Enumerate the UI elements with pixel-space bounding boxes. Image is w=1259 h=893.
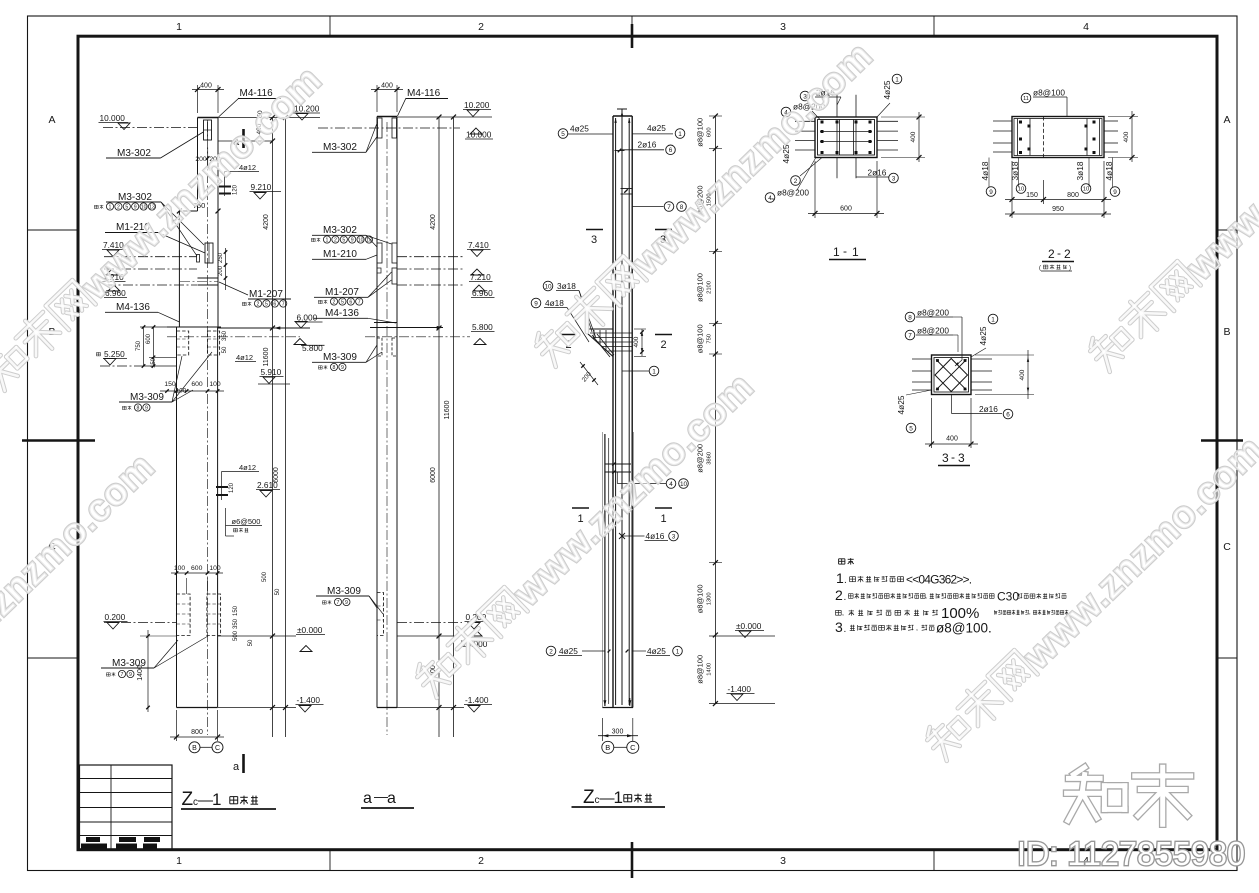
svg-text:10.000: 10.000 [466, 130, 492, 140]
svg-text:2ø16: 2ø16 [638, 140, 657, 150]
svg-text:4ø25: 4ø25 [570, 124, 589, 134]
svg-text:950: 950 [1052, 206, 1064, 213]
svg-text:3: 3 [780, 21, 786, 33]
svg-text:ø8@100: ø8@100 [1033, 88, 1065, 98]
svg-text:11600: 11600 [263, 347, 270, 366]
svg-text:ø8@200: ø8@200 [777, 188, 809, 198]
svg-text:0.200: 0.200 [105, 612, 126, 622]
svg-text:10: 10 [358, 237, 364, 243]
svg-text:9: 9 [345, 600, 348, 606]
svg-text:10: 10 [1018, 187, 1024, 193]
svg-text:6: 6 [273, 301, 276, 307]
svg-text:5: 5 [341, 299, 344, 305]
svg-text:1: 1 [176, 855, 182, 867]
svg-text:50: 50 [222, 346, 228, 353]
svg-text:9: 9 [1113, 189, 1117, 196]
svg-text:150: 150 [164, 381, 176, 388]
svg-text:B: B [1223, 326, 1230, 338]
svg-text:9.210: 9.210 [251, 182, 272, 192]
svg-text:5: 5 [265, 301, 268, 307]
svg-text:Z: Z [182, 789, 194, 810]
svg-text:2100: 2100 [707, 281, 713, 294]
svg-text:5: 5 [909, 425, 913, 432]
svg-text:2: 2 [549, 648, 553, 655]
svg-text:400: 400 [200, 83, 212, 90]
svg-text:350: 350 [233, 618, 239, 629]
svg-text:3: 3 [892, 175, 896, 182]
svg-text:<<04G362>>.: <<04G362>>. [906, 573, 972, 587]
svg-text:4ø12: 4ø12 [236, 353, 253, 362]
svg-text:M3-309: M3-309 [327, 586, 361, 597]
svg-text:M3-302: M3-302 [323, 225, 357, 236]
svg-text:4ø12: 4ø12 [239, 463, 256, 472]
svg-text:-: - [951, 450, 955, 464]
svg-text:.: . [844, 592, 847, 603]
svg-text:100: 100 [176, 388, 187, 395]
svg-text:—: — [374, 788, 388, 804]
svg-text:1: 1 [614, 788, 623, 807]
svg-text:6.000: 6.000 [297, 313, 318, 323]
svg-text:a: a [363, 790, 372, 807]
svg-text:9: 9 [534, 300, 538, 307]
svg-text:300: 300 [612, 729, 624, 736]
svg-text:3ø18: 3ø18 [1075, 161, 1085, 180]
svg-text:8: 8 [137, 405, 140, 411]
svg-text:.: . [844, 575, 847, 586]
svg-text:4ø25: 4ø25 [559, 646, 578, 656]
svg-text:1: 1 [326, 237, 329, 243]
svg-text:3: 3 [958, 451, 965, 465]
svg-text:1: 1 [109, 204, 112, 210]
svg-text:4: 4 [1083, 21, 1089, 33]
svg-text:9: 9 [341, 365, 344, 371]
svg-text:4ø16: 4ø16 [646, 531, 665, 541]
svg-text:ID: 1127855980: ID: 1127855980 [1017, 835, 1245, 872]
svg-text:2ø16: 2ø16 [979, 404, 998, 414]
svg-text:-: - [1057, 246, 1061, 260]
svg-text:7: 7 [908, 332, 912, 339]
svg-text:750: 750 [707, 334, 713, 344]
svg-text:a: a [387, 790, 396, 807]
svg-text:C30: C30 [997, 590, 1019, 604]
svg-text:7: 7 [358, 299, 361, 305]
svg-text:120: 120 [229, 482, 235, 493]
svg-text:2.610: 2.610 [257, 480, 278, 490]
svg-text:4200: 4200 [263, 214, 270, 230]
svg-text:8: 8 [333, 365, 336, 371]
svg-text:7: 7 [121, 672, 124, 678]
svg-text:2: 2 [478, 21, 484, 33]
svg-text:.: . [844, 624, 847, 635]
svg-text:2: 2 [333, 299, 336, 305]
svg-text:ø8@100: ø8@100 [696, 584, 705, 613]
svg-text:150: 150 [151, 357, 157, 368]
svg-text:150: 150 [1026, 192, 1038, 199]
svg-text:5: 5 [561, 131, 565, 138]
svg-text:4ø25: 4ø25 [647, 123, 666, 133]
svg-text:100%: 100% [941, 605, 979, 622]
svg-text:7.210: 7.210 [470, 272, 491, 282]
svg-text:9: 9 [351, 237, 354, 243]
svg-text:2: 2 [1064, 247, 1071, 261]
svg-text:600: 600 [707, 127, 713, 137]
svg-text:6: 6 [349, 299, 352, 305]
svg-text:M1-207: M1-207 [325, 287, 359, 298]
svg-text:,: , [925, 593, 927, 600]
svg-text:50: 50 [275, 588, 281, 595]
svg-text:4ø25: 4ø25 [978, 326, 988, 345]
svg-text:ø8@100.: ø8@100. [936, 621, 992, 636]
svg-text:600: 600 [840, 206, 852, 213]
svg-text:7: 7 [337, 600, 340, 606]
svg-text:M4-136: M4-136 [325, 308, 359, 319]
svg-text:4ø25: 4ø25 [896, 395, 906, 414]
svg-text:400: 400 [633, 336, 640, 347]
svg-text:400: 400 [1019, 369, 1026, 380]
svg-text:100: 100 [174, 565, 186, 572]
svg-text:3: 3 [591, 234, 597, 246]
svg-text:ø6@500: ø6@500 [232, 517, 261, 526]
svg-text:3: 3 [835, 619, 843, 635]
svg-text:5.910: 5.910 [261, 367, 282, 377]
svg-text:A: A [1223, 114, 1230, 126]
svg-text:Z: Z [583, 787, 595, 808]
svg-text:M4-136: M4-136 [116, 302, 150, 313]
svg-text:M3-302: M3-302 [117, 148, 151, 159]
svg-text:B: B [192, 745, 197, 752]
svg-text:100: 100 [209, 381, 221, 388]
svg-text:400: 400 [1123, 131, 1130, 142]
svg-text:a: a [233, 761, 240, 773]
svg-text:10.000: 10.000 [100, 113, 126, 123]
svg-text:1: 1 [991, 316, 995, 323]
svg-text:7.410: 7.410 [468, 240, 489, 250]
svg-text:ø8@200: ø8@200 [917, 326, 949, 336]
svg-text:6.960: 6.960 [472, 288, 493, 298]
svg-text:-1.400: -1.400 [728, 684, 752, 694]
svg-text:120: 120 [233, 184, 239, 195]
svg-text:6: 6 [669, 147, 673, 154]
svg-text:6000: 6000 [430, 467, 437, 483]
svg-text:350: 350 [222, 330, 228, 341]
svg-text:(: ( [1039, 266, 1041, 272]
svg-text:9: 9 [129, 672, 132, 678]
svg-text:10: 10 [1083, 187, 1089, 193]
svg-text:5.800: 5.800 [302, 343, 323, 353]
svg-text:4ø25: 4ø25 [647, 646, 666, 656]
svg-text:400: 400 [946, 436, 958, 443]
svg-text:±0.000: ±0.000 [297, 625, 323, 635]
svg-text:,: , [916, 625, 918, 632]
svg-text:B: B [605, 743, 610, 752]
svg-text:2: 2 [117, 204, 120, 210]
svg-text:1: 1 [852, 245, 859, 259]
svg-text:800: 800 [191, 729, 203, 736]
svg-text:2: 2 [794, 178, 798, 185]
svg-text:4ø18: 4ø18 [980, 161, 990, 180]
svg-text:M1-207: M1-207 [249, 289, 283, 300]
svg-text:600: 600 [191, 565, 203, 572]
svg-text:M3-302: M3-302 [118, 192, 152, 203]
svg-text:1: 1 [676, 648, 680, 655]
svg-text:C: C [215, 745, 220, 752]
svg-text:1: 1 [176, 21, 182, 33]
svg-text:5.250: 5.250 [104, 349, 125, 359]
svg-text:1400: 1400 [137, 665, 144, 681]
svg-text:200: 200 [218, 265, 224, 276]
svg-text:,: , [842, 610, 844, 617]
svg-text:150: 150 [233, 605, 239, 616]
svg-text:4200: 4200 [430, 214, 437, 230]
svg-text:): ) [1069, 266, 1071, 272]
svg-text:C: C [1223, 541, 1231, 553]
svg-text:4ø18: 4ø18 [545, 298, 564, 308]
svg-text:1: 1 [212, 790, 221, 809]
svg-text:1: 1 [652, 368, 656, 375]
svg-text:ø8@200: ø8@200 [917, 308, 949, 318]
svg-text:1: 1 [678, 131, 682, 138]
svg-text:3: 3 [780, 855, 786, 867]
svg-text:±0.000: ±0.000 [736, 621, 762, 631]
svg-text:4ø25: 4ø25 [882, 80, 892, 99]
svg-text:2: 2 [660, 339, 666, 351]
svg-text:7: 7 [282, 301, 285, 307]
svg-text:9: 9 [134, 204, 137, 210]
svg-text:ø8@100: ø8@100 [696, 118, 705, 147]
svg-text:11: 11 [1023, 96, 1029, 102]
svg-text:600: 600 [191, 381, 203, 388]
svg-text:10: 10 [544, 283, 552, 290]
svg-text:1: 1 [660, 513, 666, 525]
svg-text:10: 10 [680, 481, 688, 488]
svg-text:8: 8 [908, 314, 912, 321]
svg-text:ø8@100: ø8@100 [696, 324, 705, 353]
svg-text:-: - [843, 244, 847, 258]
svg-text:6: 6 [1006, 411, 1010, 418]
svg-text:600: 600 [146, 333, 152, 344]
svg-text:3ø18: 3ø18 [557, 281, 576, 291]
svg-text:1400: 1400 [707, 663, 713, 676]
svg-text:M4-116: M4-116 [407, 88, 441, 99]
svg-text:5.800: 5.800 [472, 322, 493, 332]
svg-text:11600: 11600 [444, 400, 451, 419]
svg-text:A: A [48, 114, 55, 126]
svg-text:—: — [198, 792, 213, 809]
svg-text:M3-309: M3-309 [130, 392, 164, 403]
svg-text:500: 500 [262, 571, 268, 582]
svg-text:3: 3 [672, 533, 676, 540]
svg-text:ø8@100: ø8@100 [696, 655, 705, 684]
svg-text:2: 2 [334, 237, 337, 243]
svg-text:ø8@100: ø8@100 [696, 273, 705, 302]
svg-text:—: — [600, 790, 615, 807]
svg-text:M3-309: M3-309 [323, 352, 357, 363]
svg-text:2: 2 [835, 587, 843, 603]
svg-text:5: 5 [125, 204, 128, 210]
svg-text:750: 750 [136, 340, 142, 351]
svg-text:1: 1 [836, 570, 844, 586]
svg-text:-1.400: -1.400 [465, 695, 489, 705]
svg-text:400: 400 [910, 131, 917, 142]
svg-text:50: 50 [248, 639, 254, 646]
svg-text:5: 5 [342, 237, 345, 243]
svg-text:100: 100 [209, 565, 221, 572]
svg-text:3: 3 [942, 451, 949, 465]
svg-text:10.200: 10.200 [464, 100, 490, 110]
svg-text:9: 9 [145, 405, 148, 411]
svg-text:M3-302: M3-302 [323, 142, 357, 153]
svg-text:2: 2 [478, 855, 484, 867]
svg-text:2: 2 [257, 301, 260, 307]
svg-text:1: 1 [833, 245, 840, 259]
svg-text:9: 9 [989, 189, 993, 196]
svg-text:-1.400: -1.400 [297, 695, 321, 705]
svg-text:400: 400 [381, 83, 393, 90]
svg-text:250: 250 [218, 252, 224, 263]
svg-text:1300: 1300 [707, 592, 713, 605]
svg-text:M1-210: M1-210 [323, 249, 357, 260]
svg-text:1: 1 [895, 76, 899, 83]
svg-text:800: 800 [1067, 192, 1079, 199]
svg-text:C: C [630, 743, 636, 752]
svg-text:2: 2 [1048, 247, 1055, 261]
svg-text:3860: 3860 [707, 452, 713, 465]
